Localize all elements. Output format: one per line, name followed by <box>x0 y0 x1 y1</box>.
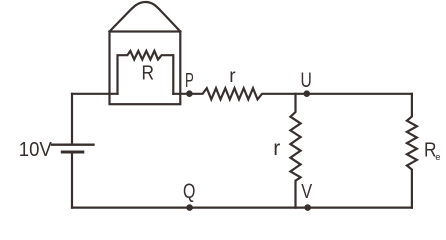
svg-text:10V: 10V <box>19 139 53 161</box>
svg-text:r: r <box>229 66 236 87</box>
svg-text:U: U <box>301 69 312 92</box>
svg-text:r: r <box>273 137 280 160</box>
svg-text:V: V <box>301 181 312 203</box>
svg-text:P: P <box>185 70 194 92</box>
svg-text:Q: Q <box>183 180 195 203</box>
svg-text:R: R <box>142 61 155 84</box>
svg-text:e: e <box>435 152 440 163</box>
